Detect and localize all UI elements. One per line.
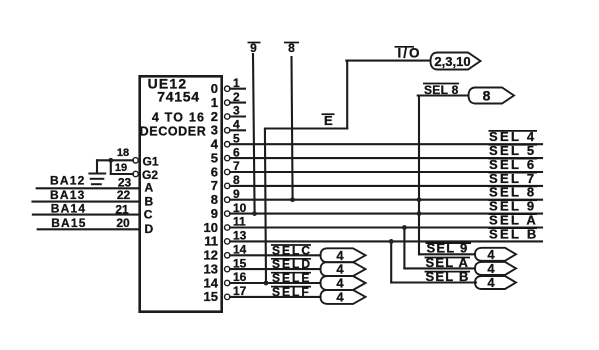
svg-text:18: 18 [117,147,129,159]
svg-text:BA13: BA13 [50,188,85,202]
svg-text:I/O: I/O [397,46,421,61]
svg-text:4: 4 [336,276,344,291]
svg-text:14: 14 [204,275,219,290]
svg-text:4: 4 [336,262,344,277]
svg-text:5: 5 [233,131,240,145]
svg-text:3: 3 [211,123,218,138]
svg-text:21: 21 [115,202,129,216]
svg-text:15: 15 [233,256,247,270]
svg-text:6: 6 [211,164,218,179]
svg-text:19: 19 [115,162,127,174]
svg-text:4: 4 [487,247,495,262]
svg-text:9: 9 [233,187,240,201]
svg-text:C: C [144,208,153,222]
svg-text:10: 10 [233,201,247,215]
svg-text:4: 4 [233,118,240,132]
svg-text:2: 2 [211,109,218,124]
svg-text:74154: 74154 [157,89,199,105]
svg-text:11: 11 [204,234,218,249]
svg-text:7: 7 [211,178,218,193]
svg-text:1: 1 [211,95,218,110]
svg-text:12: 12 [204,248,218,263]
svg-text:11: 11 [233,215,246,229]
svg-text:6: 6 [233,145,240,159]
svg-text:BA12: BA12 [50,174,85,188]
svg-text:4: 4 [336,248,344,263]
svg-text:3: 3 [233,104,240,118]
svg-text:0: 0 [211,81,218,96]
svg-text:2,3,10: 2,3,10 [434,54,470,69]
svg-text:13: 13 [204,261,218,276]
svg-text:13: 13 [233,229,247,243]
svg-text:2: 2 [233,90,240,104]
svg-text:E: E [324,113,333,128]
svg-text:14: 14 [233,243,247,257]
svg-text:4: 4 [211,137,219,152]
svg-text:4 TO 16: 4 TO 16 [152,111,205,125]
svg-text:22: 22 [117,188,131,202]
svg-text:DECODER: DECODER [140,125,207,139]
svg-text:5: 5 [211,150,218,165]
svg-text:B: B [145,194,154,208]
svg-text:4: 4 [487,261,495,276]
svg-text:4: 4 [487,275,495,290]
svg-text:BA14: BA14 [51,202,86,216]
svg-text:A: A [145,180,154,194]
svg-text:SEL 8: SEL 8 [424,83,459,97]
svg-text:D: D [145,222,154,236]
svg-text:BA15: BA15 [51,216,86,230]
svg-text:1: 1 [233,76,240,90]
svg-text:7: 7 [233,159,240,173]
svg-text:8: 8 [211,192,218,207]
svg-text:10: 10 [204,220,218,235]
svg-text:20: 20 [116,216,130,230]
svg-text:9: 9 [211,206,218,221]
svg-text:8: 8 [233,173,240,187]
svg-text:8: 8 [483,88,491,104]
svg-text:G1: G1 [143,155,159,169]
svg-text:16: 16 [233,270,247,284]
svg-text:4: 4 [336,289,344,304]
svg-text:17: 17 [233,284,247,298]
svg-text:15: 15 [204,289,218,304]
